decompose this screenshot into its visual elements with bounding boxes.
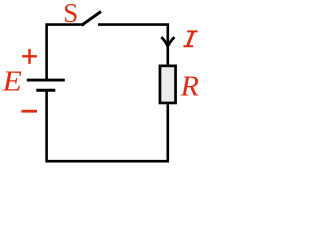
svg-text:S: S [63,0,78,28]
svg-text:E: E [2,65,23,98]
svg-text:R: R [180,71,199,102]
